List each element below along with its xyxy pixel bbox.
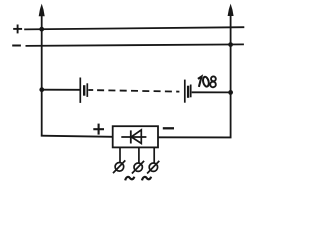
node junction dot right vertical / minus bus bbox=[228, 42, 233, 47]
wire bottom row left segment bbox=[41, 136, 113, 137]
node junction dot right vertical / battery row bbox=[228, 90, 233, 95]
diode VD triangle bbox=[131, 130, 141, 144]
wire battery row right segment bbox=[192, 91, 231, 93]
terminal XT3 circle bbox=[149, 163, 157, 171]
node junction dot left vertical / battery row bbox=[39, 87, 44, 92]
wire plus bus line bbox=[24, 27, 244, 29]
label 108 (battery value) bbox=[198, 76, 217, 88]
battery GB2 right (long plate) bbox=[184, 80, 186, 103]
wire minus bus line bbox=[26, 44, 244, 46]
node junction dot left vertical / plus bus bbox=[39, 27, 44, 32]
terminal XT2 slash bbox=[132, 161, 144, 174]
arrow left bus top bbox=[39, 4, 45, 17]
label ~ (AC terminal mark 1) bbox=[125, 177, 134, 181]
terminal XT3 slash bbox=[147, 161, 159, 174]
wire dashed link between batteries bbox=[97, 90, 179, 91]
diode VD cathode bar bbox=[130, 130, 132, 143]
wire left vertical bus bbox=[41, 9, 43, 137]
label - (rectifier output polarity) bbox=[163, 127, 174, 129]
battery GB2 right (short thick plate) bbox=[187, 86, 189, 98]
wire bottom row right segment bbox=[158, 136, 232, 138]
label + (rectifier input polarity) bbox=[93, 124, 104, 135]
label ~ (AC terminal mark 2) bbox=[142, 177, 151, 181]
battery GB1 left (long plate) bbox=[79, 78, 81, 103]
wire terminal stub 1 bbox=[119, 148, 121, 163]
battery GB2 right (short plate) bbox=[190, 85, 192, 98]
battery GB1 left (short thick plate) bbox=[83, 85, 85, 96]
terminal XT2 circle bbox=[134, 163, 142, 171]
battery GB1 left (medium plate) bbox=[86, 83, 88, 97]
wire battery row left segment bbox=[42, 89, 80, 91]
arrow right bus top bbox=[228, 4, 234, 16]
rectifier block VD outline bbox=[113, 126, 158, 147]
wire terminal stub 2 bbox=[138, 148, 140, 164]
terminal XT1 circle bbox=[115, 163, 124, 172]
wire right vertical bus bbox=[230, 9, 232, 137]
label + (plus bus) bbox=[13, 25, 22, 34]
diode VD lead line bbox=[121, 136, 146, 138]
wire terminal stub 3 bbox=[153, 148, 155, 164]
terminal XT1 slash bbox=[113, 160, 125, 173]
wire stub after left battery bbox=[88, 89, 93, 91]
label - (minus bus) bbox=[12, 45, 21, 47]
